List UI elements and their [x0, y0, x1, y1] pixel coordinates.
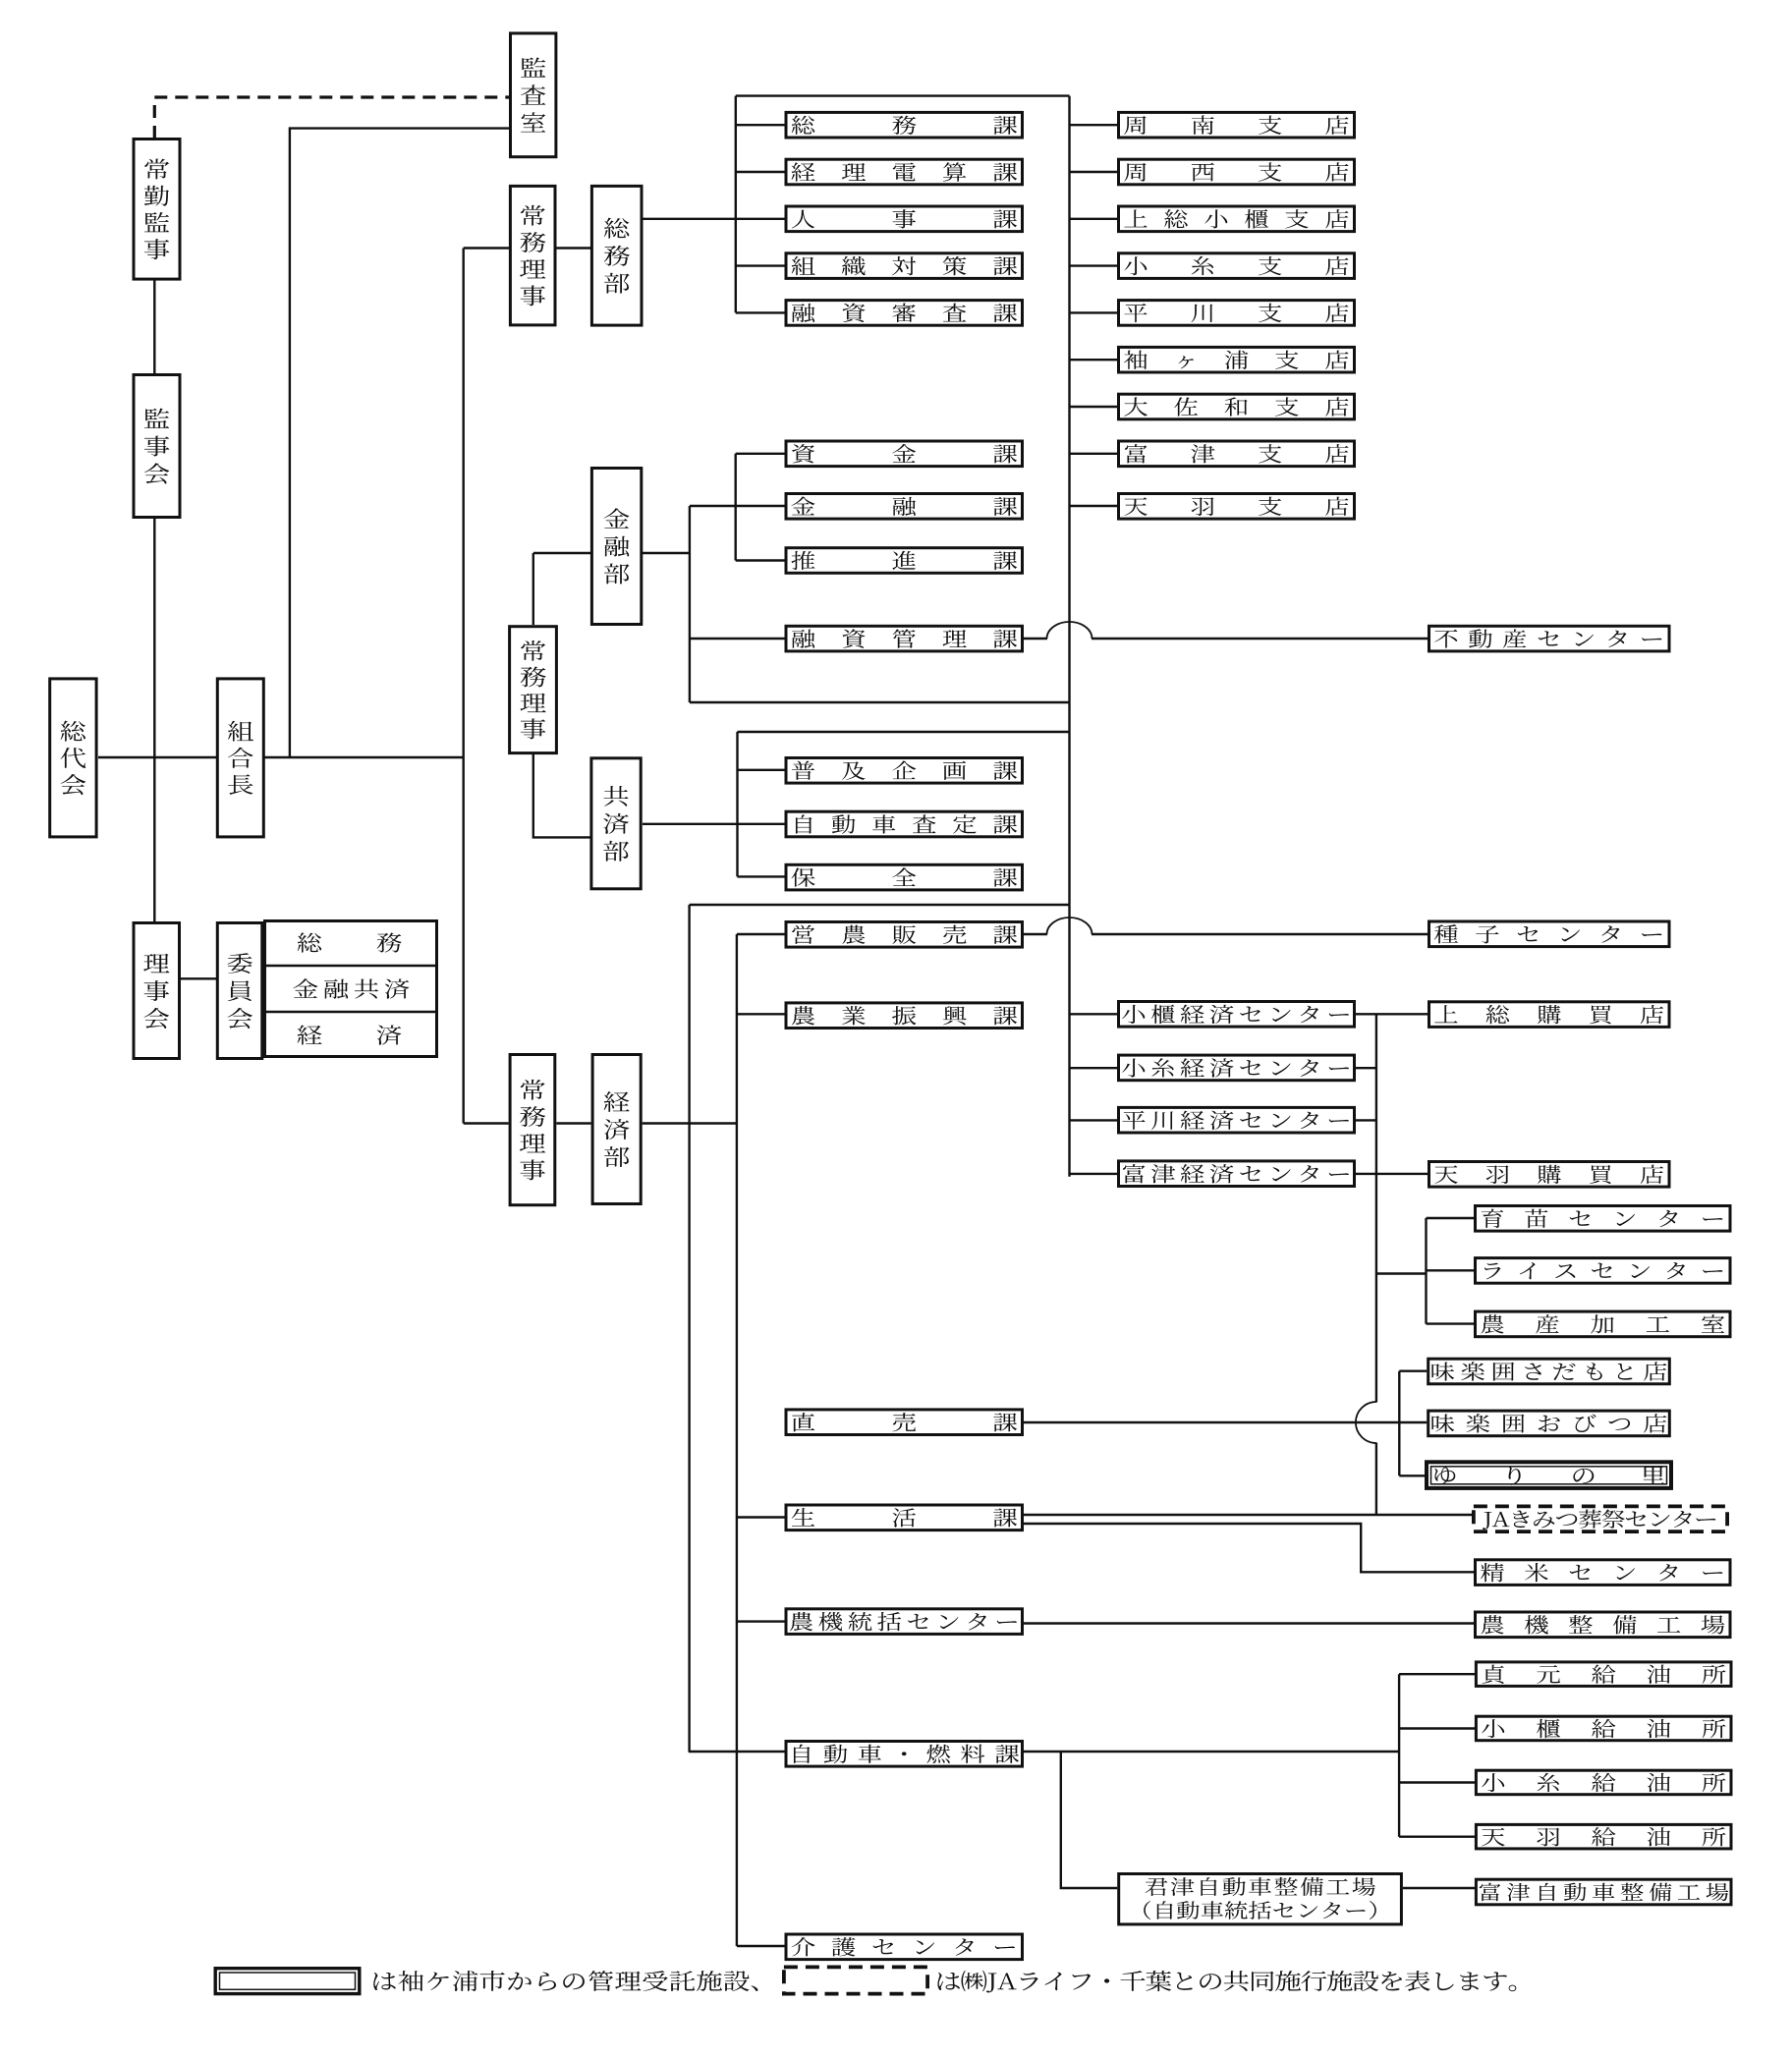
- box 農産加工室: [1476, 1311, 1731, 1337]
- wire 総務部-人事課: [643, 218, 785, 220]
- wire 経済部-サブトランク: [643, 1122, 737, 1124]
- box 小櫃経済センター: [1119, 1002, 1355, 1028]
- wire 常務理事1-総務部: [556, 247, 590, 249]
- box 常務理事 U2: [510, 627, 557, 753]
- box 組合長: [217, 679, 263, 837]
- box 上総小櫃支店: [1119, 206, 1355, 232]
- box 生活課: [786, 1505, 1023, 1530]
- wire 平川支店 stub: [1070, 311, 1118, 313]
- wire 周南支店 stub: [1070, 124, 1118, 126]
- box 普及企画課: [786, 758, 1023, 784]
- box 金融共済(委員会): [265, 966, 437, 999]
- wire 小櫃給油所 stub: [1399, 1727, 1475, 1729]
- box 監事会: [134, 375, 180, 518]
- wire ライスセンター stub: [1427, 1269, 1475, 1271]
- box 組織対策課: [786, 253, 1023, 279]
- wire 育苗グループ feed: [1376, 1272, 1427, 1274]
- box 平川経済センター: [1119, 1107, 1355, 1133]
- box 直売課: [786, 1410, 1023, 1435]
- box 資金課: [786, 441, 1023, 467]
- legend text1: [373, 1971, 757, 1991]
- box 介護センター: [786, 1934, 1023, 1960]
- wire 経済トランク: [688, 905, 690, 1752]
- box 委員会: [217, 923, 261, 1059]
- box 平川支店: [1119, 301, 1355, 326]
- wire 常勤監事-監事会: [153, 279, 155, 374]
- wire 普及企画課 stub: [738, 769, 785, 771]
- box 推進課: [786, 548, 1023, 574]
- wire トランクG 上段: [1375, 1014, 1377, 1402]
- wire 保全課 stub: [738, 875, 785, 877]
- box 融資審査課: [786, 301, 1023, 326]
- wire 金融部下部連絡線: [690, 701, 1070, 703]
- box 周西支店: [1119, 159, 1355, 185]
- box 金融課: [786, 494, 1023, 520]
- wire トランクG 下段: [1375, 1443, 1377, 1516]
- wire 金融サブトランク2: [735, 454, 737, 561]
- wire 袖ヶ浦支店 stub: [1070, 359, 1118, 361]
- box 貞元給油所: [1476, 1662, 1731, 1687]
- wire 総務課トランク: [735, 96, 737, 313]
- box 富津支店: [1119, 441, 1355, 467]
- box 総務部: [591, 186, 642, 325]
- wire 農機統括センター stub: [737, 1620, 785, 1622]
- legend text2: [937, 1971, 1516, 1993]
- wire 味楽囲サブトランク: [1398, 1371, 1400, 1476]
- wire 融資管理課-不動産センター line: [1024, 638, 1047, 640]
- box 経理電算課: [786, 159, 1023, 185]
- wire 資金課 stub: [736, 453, 785, 455]
- box 総代会: [50, 679, 96, 837]
- wire 生活課 stub: [737, 1516, 785, 1518]
- wire 生活課-JA葬祭センター: [1024, 1514, 1472, 1516]
- wire 天羽支店 stub: [1070, 505, 1118, 507]
- box 総務(委員会): [265, 921, 437, 1057]
- box 理事会: [134, 923, 180, 1059]
- wire 融資管理課 row: [690, 638, 785, 640]
- wire 味楽囲さだもと店 stub: [1399, 1369, 1427, 1371]
- wire トランクG 跨ぎアーク: [1356, 1402, 1376, 1443]
- wire 小糸経済センター-トランクG: [1356, 1067, 1376, 1069]
- wire 貞元給油所 stub: [1399, 1673, 1475, 1675]
- wire 支店トランク: [1068, 96, 1070, 1177]
- box 君津自動車整備工場(自動車統括センター): [1119, 1874, 1402, 1924]
- wire 農機統括センター-農機整備工場: [1024, 1622, 1474, 1624]
- box 農業振興課: [786, 1003, 1023, 1029]
- box 保全課: [786, 864, 1023, 890]
- box 自動車・燃料課: [786, 1742, 1023, 1767]
- wire 金融部 right feed: [643, 552, 690, 554]
- wire 天羽給油所 stub: [1399, 1835, 1475, 1837]
- box 自動車査定課: [786, 811, 1023, 837]
- wire 育苗サブトランク: [1425, 1218, 1427, 1324]
- wire 直売課-味楽囲おびつ店: [1023, 1421, 1427, 1423]
- box 小櫃給油所: [1476, 1716, 1731, 1741]
- box 育苗センター: [1476, 1206, 1731, 1232]
- wire 富津支店 stub: [1070, 453, 1118, 455]
- wire 自動車燃料課 row: [689, 1751, 785, 1753]
- wire 融資管理課-不動産センター arc: [1047, 622, 1092, 639]
- wire 常務理事トランク: [463, 249, 465, 1124]
- wire 営農販売課-種子センター arc: [1047, 918, 1092, 934]
- wire 富津経済センター stub: [1070, 1173, 1118, 1175]
- box 監査室: [511, 33, 556, 157]
- wire 営農販売課 stub: [737, 933, 785, 935]
- wire 理事会-委員会: [181, 977, 216, 979]
- wire 融資審査課 stub: [736, 311, 785, 313]
- wire 給油所サブトランク: [1398, 1674, 1400, 1837]
- box 農機統括センター: [786, 1609, 1023, 1635]
- wire 平川経済センター-トランクG: [1356, 1119, 1376, 1121]
- box 天羽購買店: [1429, 1162, 1670, 1188]
- box 共済部: [591, 758, 641, 889]
- wire 組合長-常務トランク: [264, 756, 464, 758]
- box 天羽給油所: [1476, 1824, 1731, 1849]
- wire 小糸経済センター stub: [1070, 1067, 1118, 1069]
- box 常務理事 U1: [510, 186, 555, 325]
- wire 監事会-理事会: [153, 518, 155, 922]
- box 不動産センター: [1429, 626, 1670, 651]
- legend 共同施行施設(破線枠見本): [784, 1967, 927, 1993]
- box 大佐和支店: [1119, 394, 1355, 419]
- wire 推進課 stub: [736, 559, 785, 561]
- wire 共済サブトランク: [736, 732, 738, 876]
- box 常勤監事: [134, 139, 180, 280]
- box 味楽囲おびつ店: [1428, 1411, 1670, 1436]
- wire 総務課 stub: [736, 124, 785, 126]
- box 営農販売課: [786, 922, 1023, 948]
- box 種子センター: [1429, 921, 1670, 947]
- wire 金融課 row: [690, 505, 785, 507]
- wire 経済部 feed: [464, 1122, 509, 1124]
- wire 共済上部連絡線: [738, 731, 1070, 733]
- box 融資管理課: [786, 626, 1023, 651]
- wire 常務理事2-共済部: [533, 754, 590, 837]
- wire 君津整備工場 riser: [1061, 1752, 1117, 1888]
- box 総務課: [786, 112, 1023, 138]
- wire 生活課-精米センター: [1024, 1524, 1474, 1572]
- box 経済部: [592, 1055, 641, 1204]
- wire 育苗センター stub: [1427, 1217, 1475, 1219]
- wire ゆりの里 stub: [1399, 1475, 1425, 1476]
- box 経済(委員会): [265, 1012, 437, 1045]
- box ライスセンター: [1476, 1258, 1731, 1284]
- box 味楽囲さだもと店: [1428, 1359, 1670, 1384]
- wire 自動車燃料課-給油所トランク: [1023, 1751, 1399, 1753]
- wire 常務理事3-経済部: [556, 1122, 590, 1124]
- box 富津経済センター: [1119, 1161, 1355, 1187]
- box ゆりの里 (二重枠): [1427, 1462, 1671, 1488]
- wire 監査室 riser: [290, 129, 509, 757]
- box 精米センター: [1476, 1560, 1731, 1586]
- box 常務理事 U3: [510, 1055, 555, 1205]
- wire 農業振興課 stub: [737, 1013, 785, 1015]
- wire 小櫃経済センター-上総購買店: [1356, 1013, 1428, 1015]
- wire 介護センター stub: [737, 1945, 785, 1947]
- box 小糸支店: [1119, 253, 1355, 279]
- wire 上総小櫃支店 stub: [1070, 218, 1118, 220]
- wire 金融サブトランク1: [689, 506, 691, 702]
- wire 種子センター line: [1092, 933, 1428, 935]
- wire 大佐和支店 stub: [1070, 406, 1118, 408]
- wire dashed 常勤監事-監査室: [154, 97, 509, 139]
- wire 共済部-自動車査定課: [643, 823, 785, 825]
- wire 小櫃経済センター stub: [1070, 1013, 1118, 1015]
- box 人事課: [786, 206, 1023, 232]
- wire 金融部 left feed: [533, 552, 590, 554]
- wire 組織対策課 stub: [736, 264, 785, 266]
- legend 管理受託施設(二重枠見本): [215, 1969, 360, 1994]
- box 小糸給油所: [1476, 1770, 1731, 1795]
- box 金融部: [591, 469, 641, 625]
- wire 富津経済センター-天羽購買店: [1356, 1173, 1428, 1175]
- wire 常務理事2 riser: [532, 553, 534, 625]
- wire 経済上部連絡線: [690, 904, 1070, 906]
- wire 経済サブトランク: [736, 934, 738, 1946]
- wire 不動産センター line: [1092, 638, 1428, 640]
- wire 周西支店 stub: [1070, 171, 1118, 173]
- wire 小糸給油所 stub: [1399, 1781, 1475, 1783]
- wire 小糸支店 stub: [1070, 264, 1118, 266]
- wire 平川経済センター stub: [1070, 1119, 1118, 1121]
- box JAきみつ葬祭センター (破線枠): [1474, 1506, 1727, 1531]
- box 袖ヶ浦支店: [1119, 347, 1355, 372]
- box 天羽支店: [1119, 494, 1355, 520]
- box 富津自動車整備工場: [1476, 1879, 1731, 1905]
- wire 常務理事1 feed: [464, 247, 509, 249]
- wire 農産加工室 stub: [1427, 1322, 1475, 1324]
- box 周南支店: [1119, 112, 1355, 138]
- wire 君津-富津整備工場: [1403, 1887, 1475, 1889]
- wire 営農販売課-種子センター line: [1024, 933, 1047, 935]
- wire 支店トランク上部横線: [736, 94, 1070, 96]
- box 上総購買店: [1429, 1002, 1670, 1028]
- box 小糸経済センター: [1119, 1055, 1355, 1081]
- wire 総代会-組合長: [98, 756, 216, 758]
- box 農機整備工場: [1476, 1612, 1731, 1638]
- wire 経理電算課 stub: [736, 171, 785, 173]
